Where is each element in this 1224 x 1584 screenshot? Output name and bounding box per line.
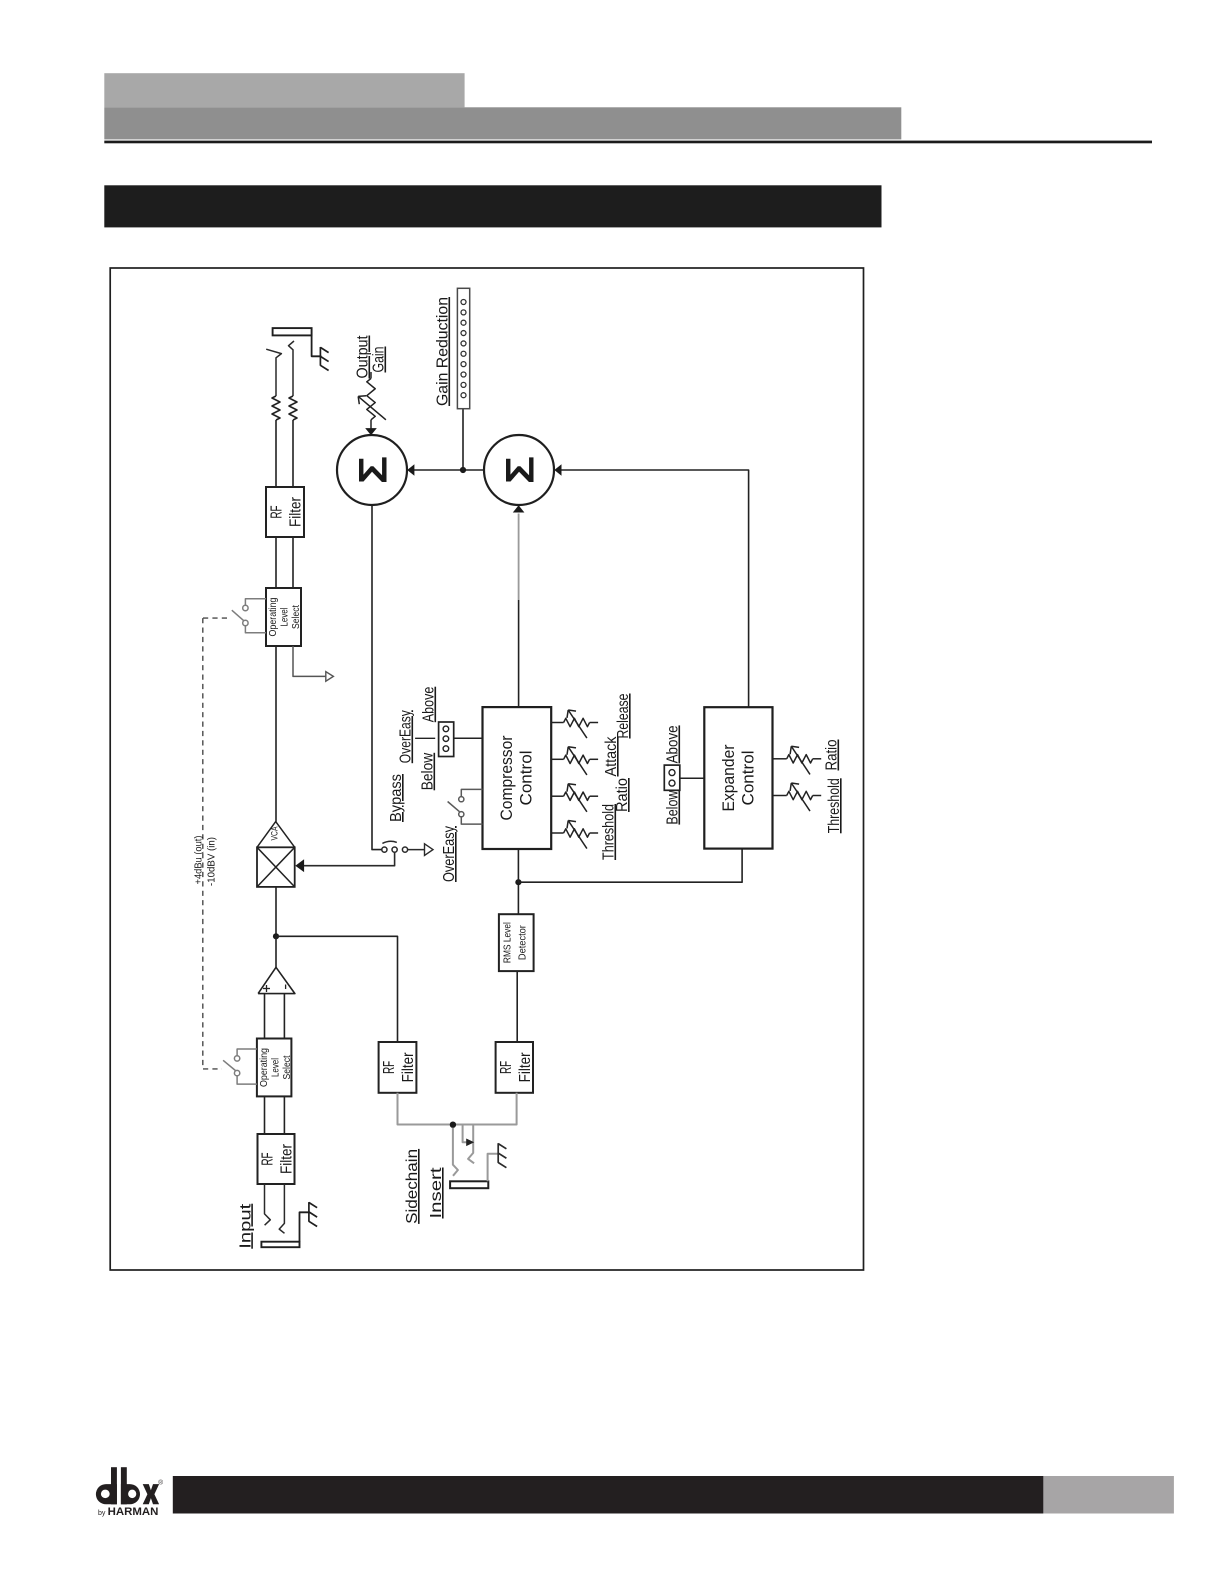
wire sigma2 to sigma1 bbox=[413, 469, 485, 471]
output jack J2 tip contact bbox=[266, 349, 281, 396]
OverEasy LED block bbox=[439, 722, 454, 757]
arrow into sigma2 bottom bbox=[513, 505, 525, 512]
input jack J1 sleeve bar bbox=[261, 1242, 299, 1248]
svg-text:Σ: Σ bbox=[351, 456, 395, 484]
operating level select (output) bbox=[266, 588, 301, 646]
wire R1 to RF filter bbox=[275, 420, 277, 487]
svg-text:Level: Level bbox=[279, 608, 291, 627]
potentiometer (compressor 3) bbox=[564, 792, 590, 800]
RF filter (output) bbox=[266, 487, 304, 537]
LED below bbox=[443, 726, 449, 732]
svg-text:Below: Below bbox=[420, 752, 437, 790]
OverEasy switch wires bbox=[461, 789, 482, 796]
svg-text:Output: Output bbox=[355, 335, 372, 378]
svg-text:Select: Select bbox=[290, 605, 302, 629]
svg-text:Ratio: Ratio bbox=[824, 739, 841, 770]
operating level select (input) bbox=[257, 1039, 292, 1097]
arrow into sigma1 top bbox=[365, 428, 377, 435]
RMS level detector bbox=[499, 914, 534, 971]
arrow into sigma2 right bbox=[554, 464, 561, 476]
svg-text:Expander: Expander bbox=[719, 744, 738, 811]
input jack J1 tip contact bbox=[265, 1184, 271, 1225]
svg-text:RF: RF bbox=[381, 1061, 398, 1074]
svg-text:Operating: Operating bbox=[258, 1048, 270, 1087]
gain reduction meter body bbox=[457, 288, 469, 408]
svg-text:Filter: Filter bbox=[400, 1052, 417, 1083]
svg-text:Operating: Operating bbox=[267, 597, 279, 636]
op-amp + input mark bbox=[263, 988, 270, 990]
switch S1 lever bbox=[232, 610, 244, 620]
svg-text:VCA: VCA bbox=[270, 826, 281, 840]
meter LED 5 bbox=[461, 341, 466, 346]
svg-text:®: ® bbox=[158, 1479, 163, 1487]
wire jack to ground bbox=[488, 1154, 499, 1182]
potentiometer (expander 2) bbox=[787, 791, 813, 799]
wire node A to op-amp bbox=[275, 936, 277, 967]
svg-text:OverEasy: OverEasy bbox=[398, 710, 415, 763]
output gain pot lead bbox=[370, 372, 372, 378]
arrow into sigma1 right bbox=[407, 464, 414, 476]
svg-text:Insert: Insert bbox=[428, 1167, 445, 1219]
summing node sigma2 bbox=[484, 435, 554, 505]
wire node B to expander bbox=[518, 849, 742, 883]
compressor pot stub 4 bbox=[551, 832, 563, 834]
VCA U2 bbox=[257, 847, 295, 887]
svg-text:Input: Input bbox=[237, 1203, 254, 1249]
junction meter wire bbox=[460, 467, 466, 473]
svg-text:Filter: Filter bbox=[517, 1052, 534, 1083]
wire node B to compressor bbox=[517, 849, 519, 882]
op-amp U1 bbox=[258, 967, 295, 993]
footer grey bar bbox=[1043, 1476, 1174, 1514]
expander pot stub 2 bbox=[773, 795, 787, 797]
VCA control arrowhead bbox=[295, 859, 304, 872]
ground (output jack) bbox=[319, 347, 321, 366]
header rule bbox=[104, 141, 1152, 144]
ground (input jack) bbox=[308, 1202, 310, 1222]
insert jack tip contact bbox=[453, 1128, 458, 1176]
LED overeasy bbox=[443, 736, 449, 742]
svg-text:Select: Select bbox=[281, 1055, 293, 1079]
LED above (expander) bbox=[669, 780, 675, 786]
expander pot stub 1 bbox=[773, 758, 787, 760]
wire compressor to sigma2 (grey part) bbox=[518, 514, 520, 601]
wire VCA out bbox=[275, 887, 277, 936]
meter LED 1 bbox=[461, 300, 466, 305]
compressor pot stub 3 bbox=[551, 795, 563, 797]
RF filter (sidechain B) bbox=[496, 1042, 533, 1093]
meter LED 8 bbox=[461, 372, 466, 377]
svg-text:Filter: Filter bbox=[288, 496, 305, 527]
meter LED 2 bbox=[461, 310, 466, 315]
compressor pot stub 2 bbox=[551, 758, 563, 760]
meter LED 9 bbox=[461, 382, 466, 387]
switch S2 wires bbox=[237, 1049, 257, 1056]
svg-text:Detector: Detector bbox=[517, 925, 529, 960]
svg-text:RF: RF bbox=[269, 505, 286, 518]
wire OLS to VCA bbox=[275, 646, 277, 822]
header light grey bar bbox=[104, 73, 464, 107]
svg-text:Bypass: Bypass bbox=[388, 774, 405, 822]
svg-text:Level: Level bbox=[269, 1058, 281, 1077]
wire LED block to expander bbox=[680, 777, 705, 779]
svg-text:Control: Control bbox=[739, 751, 758, 806]
meter LED 3 bbox=[461, 320, 466, 325]
svg-text:Below: Below bbox=[665, 790, 682, 824]
potentiometer (expander 1) bbox=[787, 755, 813, 763]
OverEasy switch lever bbox=[448, 802, 460, 812]
node B junction bbox=[515, 879, 521, 885]
wires op-amp to operating level select (input) bbox=[264, 994, 266, 1039]
wire bypass to open arrow bbox=[408, 849, 425, 851]
summing node sigma1 bbox=[337, 435, 407, 505]
dbx logo bbox=[96, 1467, 159, 1504]
open arrow (to other channel) bbox=[326, 672, 334, 682]
svg-text:Threshold: Threshold bbox=[826, 778, 843, 833]
switch S1 wires bbox=[245, 599, 266, 606]
compressor control box bbox=[483, 707, 552, 849]
potentiometer (compressor 1) bbox=[564, 718, 590, 726]
switch S1 contacts bbox=[243, 605, 248, 610]
meter LED 6 bbox=[461, 351, 466, 356]
svg-text:Filter: Filter bbox=[279, 1143, 296, 1174]
wire sigma1 down to bypass bbox=[372, 505, 382, 850]
title bar bbox=[104, 185, 881, 227]
potentiometer (compressor 4) bbox=[564, 829, 590, 837]
svg-text:by: by bbox=[98, 1510, 106, 1517]
meter LED 4 bbox=[461, 331, 466, 336]
meter LED 10 bbox=[461, 393, 466, 398]
input jack J1 ring contact bbox=[279, 1184, 284, 1233]
header dark grey bar bbox=[104, 107, 901, 139]
dashed gang link to S1 bbox=[203, 617, 230, 619]
svg-text:Σ: Σ bbox=[498, 456, 542, 484]
svg-text:-10dBV (in): -10dBV (in) bbox=[206, 837, 218, 886]
insert jack send stub bbox=[463, 1125, 469, 1143]
svg-text:Threshold: Threshold bbox=[601, 804, 618, 860]
LED above bbox=[443, 746, 449, 752]
RF filter (input) bbox=[258, 1134, 295, 1184]
svg-text:Above: Above bbox=[421, 687, 438, 723]
tick OverEasy label to LEDs bbox=[415, 737, 435, 739]
footer black bar bbox=[173, 1476, 1044, 1514]
dashed gang link to S2 bbox=[203, 1068, 222, 1070]
wire RF-A down to insert node bbox=[398, 1093, 450, 1125]
insert jack normal arrow bbox=[466, 1139, 474, 1147]
wire meter to sigma wire bbox=[462, 409, 464, 470]
insert jack return contact bbox=[468, 1125, 474, 1164]
potentiometer (output gain) bbox=[367, 378, 375, 419]
wire LED block to compressor bbox=[454, 737, 483, 739]
meter LED 7 bbox=[461, 362, 466, 367]
node A junction bbox=[273, 933, 279, 939]
wire sigma2 to expander bbox=[556, 470, 749, 707]
ground (sidechain insert) bbox=[497, 1143, 499, 1163]
wire jack to ground bbox=[312, 335, 322, 356]
open arrow (bypass) bbox=[425, 844, 434, 856]
wire compressor to sigma2 (black part) bbox=[518, 600, 520, 707]
wire pot to sigma1 bbox=[370, 420, 372, 429]
resistor R1 bbox=[272, 396, 280, 420]
svg-text:Control: Control bbox=[517, 751, 536, 806]
diagram frame bbox=[110, 268, 863, 1270]
svg-text:OverEasy: OverEasy bbox=[441, 826, 458, 882]
resistor R2 bbox=[289, 396, 297, 420]
wires OLS to RF filter (input) bbox=[264, 1096, 266, 1134]
svg-text:Compressor: Compressor bbox=[497, 735, 516, 820]
switch S2 lever bbox=[223, 1060, 235, 1070]
dashed gang line bbox=[202, 618, 204, 1069]
switch S2 contacts bbox=[234, 1056, 239, 1061]
OverEasy switch contacts bbox=[459, 797, 464, 802]
svg-text:Gain: Gain bbox=[371, 347, 388, 373]
insert jack junction bbox=[450, 1122, 456, 1128]
wire jack to ground bbox=[300, 1212, 309, 1241]
svg-text:Release: Release bbox=[615, 693, 632, 738]
bypass switch lever bbox=[382, 841, 396, 843]
bypass switch contacts bbox=[382, 847, 387, 852]
svg-text:HARMAN: HARMAN bbox=[108, 1506, 159, 1518]
svg-text:RMS Level: RMS Level bbox=[502, 922, 514, 963]
wire bypass to VCA control bbox=[304, 852, 395, 865]
wires RF filter to operating level select (output) bbox=[275, 537, 277, 588]
expander LED block bbox=[664, 765, 680, 790]
wire RMS to node B bbox=[517, 882, 519, 914]
RF filter (sidechain A) bbox=[379, 1042, 417, 1093]
output jack J2 ring contact bbox=[289, 341, 295, 396]
svg-text:Gain Reduction: Gain Reduction bbox=[435, 297, 452, 406]
LED below (expander) bbox=[669, 770, 675, 776]
op-amp - input mark bbox=[285, 985, 287, 990]
expander control box bbox=[704, 707, 772, 848]
svg-text:Sidechain: Sidechain bbox=[404, 1149, 421, 1224]
wire insert node across to RF-B bbox=[456, 1093, 517, 1125]
wire RF-B to RMS detector bbox=[516, 971, 518, 1042]
sidechain insert jack sleeve bar bbox=[450, 1181, 488, 1188]
svg-text:Above: Above bbox=[665, 725, 682, 763]
svg-text:+4dBu (out): +4dBu (out) bbox=[193, 836, 205, 885]
svg-text:RF: RF bbox=[260, 1152, 277, 1165]
wire node A to sidechain RF filter bbox=[276, 936, 398, 1042]
svg-text:Attack: Attack bbox=[603, 736, 620, 777]
wire R2 to RF filter bbox=[292, 420, 294, 487]
wire OLS to stereo-link arrow bbox=[293, 646, 326, 676]
output jack J2 sleeve bar bbox=[273, 328, 312, 335]
svg-text:RF: RF bbox=[498, 1061, 515, 1074]
compressor pot stub 1 bbox=[551, 722, 563, 724]
potentiometer (compressor 2) bbox=[564, 755, 590, 763]
